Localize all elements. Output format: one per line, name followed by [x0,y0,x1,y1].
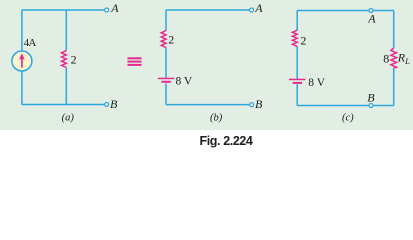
current source 4A: circle [12,51,32,71]
terminal B (a) [105,103,109,107]
current source 4A: arrow head [19,53,24,59]
wire: (a) bottom horizontal [22,104,104,106]
battery 8V (c): long plate [289,79,305,81]
wire: (c) top horizontal left of A [297,10,369,12]
svg-text:8: 8 [383,51,389,65]
terminal B (c) [369,104,373,108]
resistor 2 (c): zigzag [292,30,297,46]
battery 8V (c): short plate [293,82,302,84]
wire: (c) bottom horizontal left of B [297,105,369,107]
wire: (c) top horizontal right of A [373,10,394,12]
battery 8V (b): short plate [162,81,171,83]
wire: (a) middle vertical upper [65,10,67,51]
wire: (c) right vertical (resistor to bottom) [393,68,395,106]
wire: (c) left vertical (top to resistor) [296,11,298,31]
wire: (c) left vertical (battery to bottom) [296,84,298,105]
resistor 2 (a): zigzag [62,51,67,68]
svg-text:8 V: 8 V [308,77,325,89]
svg-text:B: B [110,97,118,111]
wire: (c) left vertical (resistor to battery) [296,47,298,79]
svg-text:(b): (b) [210,113,223,124]
resistor 2 (b): zigzag [161,31,166,48]
wire: (a) left vertical lower [21,71,23,105]
svg-text:4A: 4A [24,37,37,49]
terminal B (b) [250,103,254,107]
svg-text:A: A [110,1,119,15]
wire: (b) top horizontal [166,9,249,11]
svg-text:(a): (a) [62,113,75,124]
svg-text:B: B [367,90,375,104]
svg-text:8 V: 8 V [176,76,193,88]
wire: (c) bottom horizontal right of B [373,105,394,107]
wire: (a) middle vertical lower [65,68,67,105]
wire: (b) left vertical (resistor to battery) [165,48,167,78]
svg-text:2: 2 [168,33,174,47]
svg-text:2: 2 [71,52,77,66]
battery 8V (b): long plate [158,78,174,80]
wire: (a) top horizontal [22,9,104,11]
svg-text:A: A [254,1,263,15]
terminal A (c) [369,9,373,13]
svg-text:B: B [255,97,263,111]
svg-text:RL: RL [397,51,410,67]
wire: (c) right vertical (top to resistor) [393,11,395,49]
wire: (b) left vertical (top to resistor) [165,10,167,31]
resistor RL (c): zigzag [391,48,397,68]
figure caption [0,134,413,148]
equivalence symbol [128,57,142,66]
wire: (a) left vertical upper [21,10,23,51]
wire: (b) bottom horizontal [166,104,249,106]
terminal A (a) [105,8,109,12]
svg-text:2: 2 [300,33,306,47]
svg-text:(c): (c) [342,113,354,124]
terminal A (b) [250,8,254,12]
current source 4A: arrow stem [21,57,23,68]
wire: (b) left vertical (battery to bottom) [165,83,167,104]
svg-text:A: A [367,12,376,26]
